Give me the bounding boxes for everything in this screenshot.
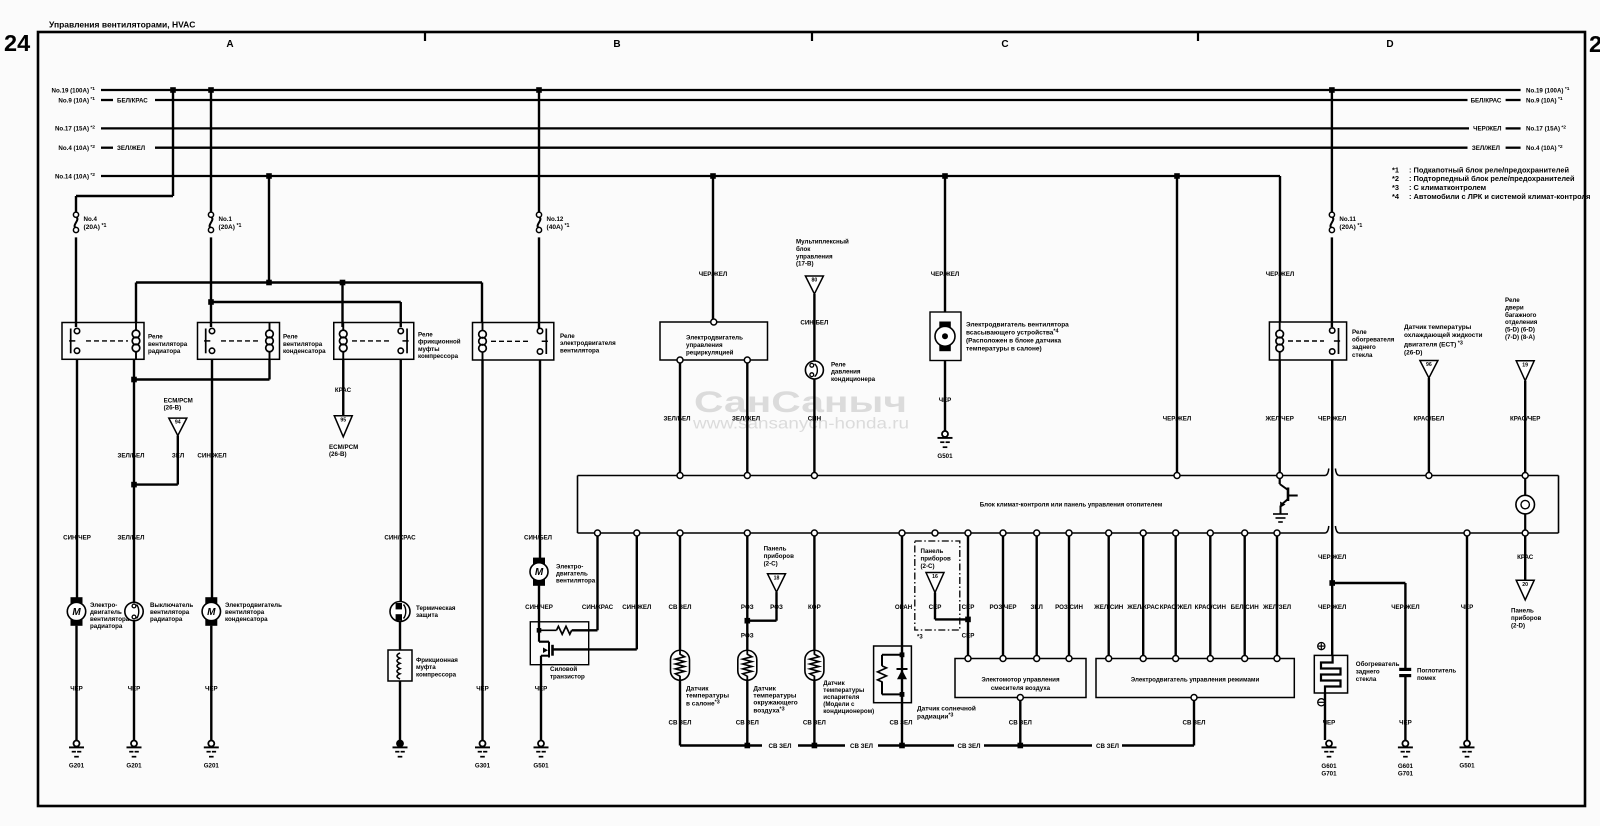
svg-text:G501: G501: [1459, 763, 1475, 770]
svg-text:ЖЕЛ/ЗЕЛ: ЖЕЛ/ЗЕЛ: [1262, 604, 1291, 611]
svg-text:No.4: No.4: [84, 216, 98, 223]
svg-text:G201: G201: [69, 763, 85, 770]
svg-text:СИН/КРАС: СИН/КРАС: [384, 535, 416, 542]
svg-text:16: 16: [932, 574, 938, 580]
svg-text:ECM/PCM: ECM/PCM: [164, 397, 193, 404]
wire bus No.19 (100A): [101, 89, 1521, 91]
svg-text:ЧЕР/ЖЕЛ: ЧЕР/ЖЕЛ: [1318, 604, 1346, 611]
svg-text:Реле: Реле: [831, 362, 846, 369]
svg-text:управления: управления: [686, 342, 723, 349]
svg-text:фрикционной: фрикционной: [418, 339, 461, 346]
svg-text:Датчик: Датчик: [823, 680, 845, 687]
fuse No.11 (20A): [1330, 217, 1333, 228]
svg-text:*2: *2: [1392, 174, 1399, 183]
svg-text:19: 19: [1522, 362, 1528, 368]
svg-text:ЧЕР/ЖЕЛ: ЧЕР/ЖЕЛ: [699, 271, 727, 278]
svg-text:95: 95: [340, 417, 346, 423]
svg-text:температуры: температуры: [686, 693, 729, 700]
svg-text:ЧЕР: ЧЕР: [205, 685, 218, 692]
wire mode motor to СВ ЗЕЛ bus: [1193, 701, 1195, 746]
svg-text:РОЗ: РОЗ: [741, 633, 754, 640]
wire cabin temp sensor to СВ ЗЕЛ bus: [679, 680, 681, 745]
ground G501 (climate box): [1464, 741, 1470, 747]
thermistor cabin temperature sensor: Датчик температуры в салоне: [671, 650, 690, 680]
fuse No.12 (40A): [538, 217, 541, 228]
solar radiation sensor: Датчик солнечной радиации: [874, 646, 912, 703]
recirculation motor box: Электродвигатель управления рециркуляцией: [660, 319, 768, 363]
svg-text:Электродвигатель: Электродвигатель: [686, 335, 743, 342]
svg-text:СИН/ЧЕР: СИН/ЧЕР: [525, 604, 553, 611]
svg-text:заднего: заднего: [1352, 344, 1376, 351]
svg-text:D: D: [1386, 39, 1393, 50]
wire feeder from No.14 bus to relay coil rail: [266, 173, 272, 179]
svg-text:ЧЕР: ЧЕР: [1323, 720, 1336, 727]
svg-text:G201: G201: [204, 763, 220, 770]
svg-text:ЗЕЛ/БЕЛ: ЗЕЛ/БЕЛ: [118, 453, 145, 460]
svg-text:вентилятора: вентилятора: [283, 341, 323, 348]
svg-text:транзистор: транзистор: [550, 674, 585, 681]
svg-text:ЗЕЛ: ЗЕЛ: [1031, 604, 1043, 611]
svg-text:ЗЕЛ/ЖЕЛ: ЗЕЛ/ЖЕЛ: [732, 416, 760, 423]
svg-text:Электродвигатель управления ре: Электродвигатель управления режимами: [1131, 677, 1260, 684]
relay condenser fan: Реле вентилятора конденсатора: [198, 323, 327, 360]
svg-text:Электро-: Электро-: [556, 564, 583, 571]
svg-text:охлаждающей жидкости: охлаждающей жидкости: [1404, 331, 1483, 339]
wire recirculation motor to climate box, ЗЕЛ/ЖЕЛ: [746, 363, 748, 473]
svg-text:Фрикционная: Фрикционная: [416, 657, 458, 664]
svg-text:ЧЕР/ЖЕЛ: ЧЕР/ЖЕЛ: [1266, 271, 1294, 278]
indicator inside climate box (right): [1516, 479, 1535, 531]
wire recirculation motor to climate box, ЗЕЛ/БЕЛ: [679, 363, 681, 473]
svg-text:электродвигателя: электродвигателя: [560, 340, 616, 347]
svg-text:(2-D): (2-D): [1511, 623, 1525, 630]
svg-text:РОЗ/СИН: РОЗ/СИН: [1055, 604, 1083, 611]
svg-text:Электродвигатель: Электродвигатель: [225, 602, 282, 609]
svg-text:багажного: багажного: [1505, 312, 1537, 319]
svg-text:СВ ЗЕЛ: СВ ЗЕЛ: [736, 720, 759, 727]
svg-text:24: 24: [4, 30, 30, 56]
ground G601 G701 (noise suppressor): [1402, 741, 1408, 747]
svg-text:приборов: приборов: [764, 553, 794, 560]
wire noise suppressor to ground G601 G701, ЧЕР: [1404, 676, 1406, 740]
svg-text:СИН: СИН: [808, 416, 822, 423]
wire blower relay contact to blower motor, СИН/БЕЛ: [539, 360, 541, 558]
wire climate box СЕР to air-mix motor: [967, 536, 969, 656]
svg-text:всасывающего устройства*4: всасывающего устройства*4: [966, 328, 1059, 336]
svg-text:СИН/КРАС: СИН/КРАС: [582, 604, 614, 611]
svg-text:ЧЕР/ЖЕЛ: ЧЕР/ЖЕЛ: [1473, 126, 1501, 133]
svg-text:: Подторпедный блок реле/предо: : Подторпедный блок реле/предохранителей: [1409, 174, 1575, 183]
ground G201 (condenser fan motor): [208, 741, 214, 747]
svg-text:БЕЛ/СИН: БЕЛ/СИН: [1231, 604, 1260, 611]
svg-text:G501: G501: [533, 763, 549, 770]
svg-text:двигателя (ECT) *3: двигателя (ECT) *3: [1404, 340, 1463, 348]
wire bus No.9 БЕЛ/КРАС: [101, 99, 113, 101]
svg-text:Реле: Реле: [148, 334, 163, 341]
svg-text:ЧЕР: ЧЕР: [128, 685, 141, 692]
svg-text:блок: блок: [796, 246, 811, 253]
svg-text:ЧЕР: ЧЕР: [1461, 604, 1474, 611]
svg-text:вентилятора: вентилятора: [150, 609, 190, 616]
svg-text:ЧЕР/ЖЕЛ: ЧЕР/ЖЕЛ: [931, 271, 959, 278]
svg-text:(7-D) (8-A): (7-D) (8-A): [1505, 334, 1535, 341]
svg-text:ECM/PCM: ECM/PCM: [329, 444, 358, 451]
svg-text:Выключатель: Выключатель: [150, 602, 193, 609]
svg-text:(5-D) (6-D): (5-D) (6-D): [1505, 327, 1535, 334]
svg-text:(17-B): (17-B): [796, 261, 814, 268]
svg-text:ЗЕЛ/ЖЕЛ: ЗЕЛ/ЖЕЛ: [117, 145, 145, 152]
air-mix motor box: Электомотор управления смесителя воздуха: [955, 656, 1086, 701]
wire tailgate relay to climate box, КРАС/ЧЕР: [1524, 381, 1526, 473]
svg-text:Датчик температуры: Датчик температуры: [1404, 324, 1472, 331]
svg-text:Панель: Панель: [921, 548, 944, 555]
svg-text:(2-C): (2-C): [764, 560, 778, 567]
ground G201 (radiator fan motor): [74, 741, 80, 747]
wire feeder to recirculation motor, from No.14 bus, ЧЕР/ЖЕЛ: [710, 173, 716, 179]
connector ECM/PCM (26-B) 95: [334, 416, 352, 437]
svg-text:радиатора: радиатора: [148, 348, 181, 355]
svg-text:Реле: Реле: [283, 334, 298, 341]
svg-text:КОР: КОР: [808, 604, 821, 611]
svg-text:радиации*3: радиации*3: [917, 712, 953, 720]
svg-text:СВ ЗЕЛ: СВ ЗЕЛ: [850, 743, 873, 750]
svg-text:C: C: [1001, 39, 1008, 50]
svg-text:испарителя: испарителя: [823, 694, 859, 701]
svg-text:Обогреватель: Обогреватель: [1356, 661, 1400, 668]
wire feeder to fuse No.11, from No.19 bus: [1329, 87, 1335, 93]
column tick B|C: [811, 33, 813, 41]
rear window defogger: Обогреватель заднего стекла: [1314, 643, 1347, 706]
intake fan motor: Электродвигатель вентилятора всасывающего устройства: [930, 312, 961, 361]
svg-text:рециркуляцией: рециркуляцией: [686, 350, 734, 357]
connector instrument panel (2-D) 20: [1516, 580, 1534, 600]
ground (compressor clutch, solid): [397, 741, 403, 747]
wire defogger relay coil to climate box, ЖЕЛ/ЧЕР: [1278, 360, 1280, 473]
svg-text:M: M: [207, 607, 216, 618]
svg-text:*3: *3: [1392, 183, 1399, 192]
svg-text:Поглотитель: Поглотитель: [1417, 668, 1456, 675]
svg-text:No.1: No.1: [219, 216, 233, 223]
wire branch to compressor-clutch relay contact: [211, 301, 401, 303]
svg-text:Силовой: Силовой: [550, 666, 577, 673]
svg-text:БЕЛ/КРАС: БЕЛ/КРАС: [1471, 97, 1502, 104]
svg-text:No.11: No.11: [1339, 216, 1356, 223]
wire connector 16 to СЕР junction: [934, 593, 936, 620]
svg-text:БЕЛ/КРАС: БЕЛ/КРАС: [117, 97, 148, 104]
svg-text:(26-B): (26-B): [164, 405, 182, 412]
wire clutch relay coil to ECM/PCM 95, КРАС: [342, 359, 344, 415]
svg-text:Датчик солнечной: Датчик солнечной: [917, 705, 976, 713]
svg-text:СВ ЗЕЛ: СВ ЗЕЛ: [1182, 720, 1205, 727]
climate control box: Блок климат-контроля или панель управления отопителем: [578, 469, 1559, 534]
wire evaporator sensor to СВ ЗЕЛ bus: [813, 680, 815, 745]
svg-text:ЗЕЛ/БЕЛ: ЗЕЛ/БЕЛ: [664, 416, 691, 423]
svg-text:давления: давления: [831, 369, 861, 376]
svg-text:*4: *4: [1392, 192, 1400, 201]
svg-text:КРАС: КРАС: [335, 387, 352, 394]
svg-text:двери: двери: [1505, 304, 1524, 311]
wire climate box КРАС to instrument panel connector 20: [1524, 536, 1526, 581]
svg-text:G701: G701: [1321, 771, 1337, 778]
wires climate box to air-mix motor: РОЗ/ЧЕР, ЗЕЛ, РОЗ/СИН: [1002, 536, 1004, 656]
svg-text:СЕР: СЕР: [929, 604, 942, 611]
mode control motor box: Электродвигатель управления режимами: [1096, 656, 1294, 701]
svg-text:кондиционером): кондиционером): [823, 708, 874, 715]
svg-text:КРАС/ЧЕР: КРАС/ЧЕР: [1510, 416, 1540, 423]
svg-text:СВ ЗЕЛ: СВ ЗЕЛ: [1096, 743, 1119, 750]
wire thermal protector to compressor clutch: [399, 622, 401, 651]
svg-text:двигатель: двигатель: [556, 571, 588, 578]
svg-text:вентилятора: вентилятора: [556, 578, 596, 585]
svg-text:2: 2: [1589, 31, 1600, 57]
wire СИН/ЖЕЛ climate box to power transistor gate: [636, 536, 638, 650]
svg-text:No.19 (100A) *1: No.19 (100A) *1: [52, 86, 96, 94]
svg-text:*3: *3: [917, 635, 923, 641]
svg-text:Датчик: Датчик: [686, 686, 709, 693]
svg-text:обогревателя: обогревателя: [1352, 337, 1395, 344]
svg-text:стекла: стекла: [1352, 352, 1373, 359]
wire radiator fan switch to ground G201, ЧЕР: [133, 621, 135, 740]
thermistor evaporator temperature sensor: Датчик температуры испарителя: [805, 650, 824, 680]
svg-text:Датчик: Датчик: [753, 686, 776, 693]
svg-text:Мультиплексный: Мультиплексный: [796, 239, 849, 246]
wires climate box to mode motor: ЖЕЛ/СИН ЖЕЛ/КРАС КРАС/ЖЕЛ КРАС/СИН БЕЛ/СИН ЖЕЛ/ЗЕЛ: [1107, 536, 1109, 656]
svg-text:18: 18: [774, 575, 780, 581]
svg-text:кондиционера: кондиционера: [831, 376, 876, 383]
wire condenser fan motor to ground G201, ЧЕР: [210, 626, 212, 740]
transistor inside climate box: [1273, 479, 1298, 523]
wire climate box ЧЕР to ground G501: [1466, 536, 1468, 741]
svg-text:двигатель: двигатель: [90, 609, 122, 616]
ground G501 (intake fan motor): [942, 431, 948, 437]
relay rear window defogger: Реле обогревателя заднего стекла: [1269, 322, 1394, 360]
svg-text:ЖЕЛ/КРАС: ЖЕЛ/КРАС: [1126, 604, 1159, 611]
wire bus No.17 ЧЕР/ЖЕЛ: [101, 127, 1469, 129]
ground G201 (radiator fan switch): [131, 741, 137, 747]
thermistor ambient temperature sensor: Датчик температуры окружающего воздуха: [738, 650, 757, 680]
svg-text:(Модели с: (Модели с: [823, 701, 855, 708]
wire climate box РОЗ to ambient temp sensor: [746, 536, 748, 651]
svg-text:СИН/БЕЛ: СИН/БЕЛ: [524, 535, 552, 542]
wire ambient sensor to СВ ЗЕЛ bus: [746, 680, 748, 745]
svg-text:компрессора: компрессора: [418, 353, 459, 360]
svg-text:температуры: температуры: [753, 693, 796, 700]
svg-text:отделения: отделения: [1505, 319, 1538, 326]
wire СИН/КРАС climate box to power transistor resistor: [596, 536, 598, 631]
wire coil supply rail y=282.5: [136, 281, 482, 283]
svg-text:G601: G601: [1321, 763, 1337, 770]
column tick A|B: [424, 33, 426, 41]
wire solar sensor to СВ ЗЕЛ bus: [901, 703, 903, 746]
wire fuse No.11 to defogger relay contact: [1331, 237, 1333, 327]
wire ECM/PCM 94 to ЗЕЛ/БЕЛ wire, ЗЕЛ: [177, 436, 179, 485]
svg-text:B: B: [613, 39, 620, 50]
svg-text:Панель: Панель: [1511, 608, 1534, 615]
column tick C|D: [1197, 33, 1199, 41]
wire climate box КОР to evaporator temp sensor: [813, 536, 815, 651]
motor blower: Электродвигатель вентилятора: [534, 558, 545, 563]
svg-text:РОЗ: РОЗ: [770, 604, 783, 611]
svg-text:ОРАН: ОРАН: [895, 604, 913, 611]
wire feeder to intake fan motor, from No.14 bus, ЧЕР/ЖЕЛ: [942, 173, 948, 179]
svg-text:СВ ЗЕЛ: СВ ЗЕЛ: [668, 720, 691, 727]
svg-text:помех: помех: [1417, 675, 1436, 682]
svg-text:СВ ЗЕЛ: СВ ЗЕЛ: [889, 720, 912, 727]
noise suppressor: Поглотитель помех: [1399, 669, 1411, 675]
wire СВ ЗЕЛ ground bus: [680, 744, 762, 746]
wire bus No.4 ЗЕЛ/ЖЕЛ: [101, 147, 113, 149]
svg-text:приборов: приборов: [921, 555, 951, 562]
svg-text:ЧЕР/ЖЕЛ: ЧЕР/ЖЕЛ: [1391, 604, 1419, 611]
wire fuse No.1 to condenser-fan relay contact, branch node at y=302: [210, 237, 212, 327]
svg-text:ЖЕЛ/СИН: ЖЕЛ/СИН: [1093, 604, 1124, 611]
svg-text:РОЗ/ЧЕР: РОЗ/ЧЕР: [989, 604, 1016, 611]
svg-text:РОЗ: РОЗ: [741, 604, 754, 611]
svg-text:конденсатора: конденсатора: [225, 616, 268, 623]
climate box top pins: [677, 473, 683, 479]
svg-text:компрессора: компрессора: [416, 671, 457, 678]
wire intake fan motor to ground G501, ЧЕР: [944, 361, 946, 431]
svg-text:управления: управления: [796, 253, 833, 260]
svg-text:приборов: приборов: [1511, 615, 1541, 622]
svg-text:СВ ЗЕЛ: СВ ЗЕЛ: [957, 743, 980, 750]
svg-text:СВ ЗЕЛ: СВ ЗЕЛ: [1009, 720, 1032, 727]
svg-text:ЗЕЛ: ЗЕЛ: [172, 453, 184, 460]
wire fuse No.4 to radiator-fan relay contact: [75, 237, 77, 327]
svg-text:конденсатора: конденсатора: [283, 348, 326, 355]
svg-text:вентилятора: вентилятора: [148, 341, 188, 348]
A/C pressure switch: Реле давления кондиционера: [805, 361, 823, 379]
svg-text:Управления вентиляторами, HVAC: Управления вентиляторами, HVAC: [49, 20, 195, 30]
svg-text:вентилятора: вентилятора: [560, 347, 600, 354]
watermark: [692, 386, 909, 433]
wire clutch relay contact to thermal protector, СИН/КРАС: [400, 359, 402, 601]
node: radiator fan relay coil junction to ECM branch, ЗЕЛ/БЕЛ wire: [133, 359, 135, 602]
svg-text:СВ ЗЕЛ: СВ ЗЕЛ: [768, 743, 791, 750]
svg-text:ЧЕР: ЧЕР: [939, 397, 952, 404]
wire compressor clutch to chassis ground: [399, 681, 401, 740]
svg-text:www.sansanych-honda.ru: www.sansanych-honda.ru: [692, 416, 909, 433]
svg-text:Реле: Реле: [560, 333, 575, 340]
wire feeder to climate box, from No.14 bus, ЧЕР/ЖЕЛ: [1174, 173, 1180, 179]
svg-text:муфты: муфты: [418, 346, 440, 353]
svg-text:: Подкапотный блок реле/предох: : Подкапотный блок реле/предохранителей: [1409, 165, 1569, 174]
wire blower motor to power transistor, СИН/ЧЕР: [538, 585, 540, 630]
thermal protector: Термическая защита: [390, 602, 410, 622]
svg-text:окружающего: окружающего: [753, 700, 797, 707]
svg-text:(Расположен в блоке датчика: (Расположен в блоке датчика: [966, 337, 1061, 345]
wire radiator-fan relay contact to radiator fan motor, СИН/ЧЕР: [76, 359, 78, 598]
svg-text:M: M: [535, 567, 544, 578]
svg-text:No.19 (100A) *1: No.19 (100A) *1: [1526, 86, 1570, 94]
svg-text:СанСаныч: СанСаныч: [694, 386, 907, 419]
motor radiator fan: Электродвигатель вентилятора радиатора: [71, 598, 82, 603]
switch radiator fan: Выключатель вентилятора радиатора: [125, 602, 143, 620]
wire connector 18 to РОЗ junction: [775, 592, 777, 621]
svg-text:Реле: Реле: [418, 332, 433, 339]
wire No.14 bus corner down to defogger relay coil, ЧЕР/ЖЕЛ: [1279, 176, 1281, 323]
svg-text:G601: G601: [1398, 763, 1414, 770]
wire air-mix motor to СВ ЗЕЛ bus: [1019, 701, 1021, 746]
svg-text:КРАС/БЕЛ: КРАС/БЕЛ: [1414, 416, 1445, 423]
relay blower motor: Реле электродвигателя вентилятора: [473, 323, 617, 361]
svg-text:муфта: муфта: [416, 664, 436, 671]
svg-text:A: A: [226, 39, 233, 50]
svg-text:ЖЕЛ/ЧЕР: ЖЕЛ/ЧЕР: [1265, 416, 1294, 423]
ground G501 (power transistor): [538, 741, 544, 747]
wire bus No.14 (10A): [101, 175, 1280, 177]
svg-text:вентилятора: вентилятора: [225, 609, 265, 616]
svg-text:96: 96: [1426, 362, 1432, 368]
svg-text:ЧЕР: ЧЕР: [70, 685, 83, 692]
relay compressor clutch: Реле фрикционной муфты компрессора: [334, 323, 461, 361]
wire radiator fan motor to ground G201, ЧЕР: [75, 626, 77, 740]
ground G301: [480, 741, 486, 747]
svg-text:СЕР: СЕР: [962, 604, 975, 611]
svg-text:G301: G301: [475, 763, 491, 770]
svg-text:G501: G501: [937, 453, 953, 460]
ground G601 G701 (defogger): [1326, 741, 1332, 747]
svg-text:Электомотор управления: Электомотор управления: [981, 677, 1060, 684]
wire multiplex unit to A/C pressure switch, СИН/БЕЛ: [813, 294, 815, 362]
relay radiator fan: Реле вентилятора радиатора: [62, 323, 188, 360]
power transistor: Силовой транзистор: [530, 622, 637, 665]
svg-text:КРАС/ЖЕЛ: КРАС/ЖЕЛ: [1160, 604, 1192, 611]
fuse No.1 (20A): [210, 217, 213, 228]
wire feeder to fuse No.1, from No.19 bus: [208, 87, 214, 93]
wire defogger relay contact down to rear defogger, ЧЕР/ЖЕЛ (crosses climate box): [1331, 360, 1333, 655]
wire blower relay coil to ground G301, ЧЕР: [481, 360, 483, 740]
svg-text:ЗЕЛ/БЕЛ: ЗЕЛ/БЕЛ: [118, 535, 145, 542]
svg-text:КРАС/СИН: КРАС/СИН: [1195, 604, 1227, 611]
compressor clutch coil: Фрикционная муфта компрессора: [388, 650, 412, 681]
svg-text:СВ ЗЕЛ: СВ ЗЕЛ: [668, 604, 691, 611]
svg-text:КРАС: КРАС: [1517, 554, 1534, 561]
wire ECT sensor to climate box, КРАС/БЕЛ: [1428, 378, 1430, 473]
svg-text:стекла: стекла: [1356, 676, 1377, 683]
motor condenser fan: Электродвигатель вентилятора конденсатора: [206, 598, 217, 603]
svg-text:ЧЕР/ЖЕЛ: ЧЕР/ЖЕЛ: [1318, 416, 1346, 423]
svg-text:94: 94: [175, 420, 181, 426]
wire coil rail link radiator relay to condenser relay coil: [134, 378, 270, 380]
svg-text:(26-B): (26-B): [329, 451, 347, 458]
svg-text:Блок климат-контроля или панел: Блок климат-контроля или панель управлен…: [980, 502, 1163, 509]
wire feeder to fuse No.12, from No.19 bus: [536, 87, 542, 93]
svg-text:Реле: Реле: [1505, 297, 1520, 304]
svg-text:смесителя воздуха: смесителя воздуха: [991, 685, 1051, 692]
svg-text:СИН/ЖЕЛ: СИН/ЖЕЛ: [622, 604, 651, 611]
svg-text:заднего: заднего: [1356, 669, 1380, 676]
connector instrument panel (2-C) 16 in dash-dot box: [915, 541, 960, 630]
svg-text:G701: G701: [1398, 771, 1414, 778]
wire branch to noise suppressor, ЧЕР/ЖЕЛ: [1332, 582, 1405, 584]
svg-text:ЧЕР/ЖЕЛ: ЧЕР/ЖЕЛ: [1318, 554, 1346, 561]
svg-text:температуры в салоне): температуры в салоне): [966, 346, 1042, 353]
wire climate box to cabin temp sensor, СВ ЗЕЛ: [679, 536, 681, 651]
svg-text:ЧЕР: ЧЕР: [535, 685, 548, 692]
svg-text:радиатора: радиатора: [90, 623, 123, 630]
svg-text:СИН/БЕЛ: СИН/БЕЛ: [800, 320, 828, 327]
fuse No.4 (20A): [75, 217, 78, 228]
svg-text:(2-C): (2-C): [921, 563, 935, 570]
svg-text:ЗЕЛ/ЖЕЛ: ЗЕЛ/ЖЕЛ: [1472, 145, 1500, 152]
svg-text:Реле: Реле: [1352, 329, 1367, 336]
svg-text:ЧЕР: ЧЕР: [1399, 720, 1412, 727]
svg-text:No.12: No.12: [547, 216, 564, 223]
svg-text:80: 80: [812, 278, 818, 284]
wire defogger to ground G601 G701, ЧЕР: [1324, 693, 1326, 740]
wire fuse No.12 to blower-motor relay contact: [538, 237, 540, 329]
